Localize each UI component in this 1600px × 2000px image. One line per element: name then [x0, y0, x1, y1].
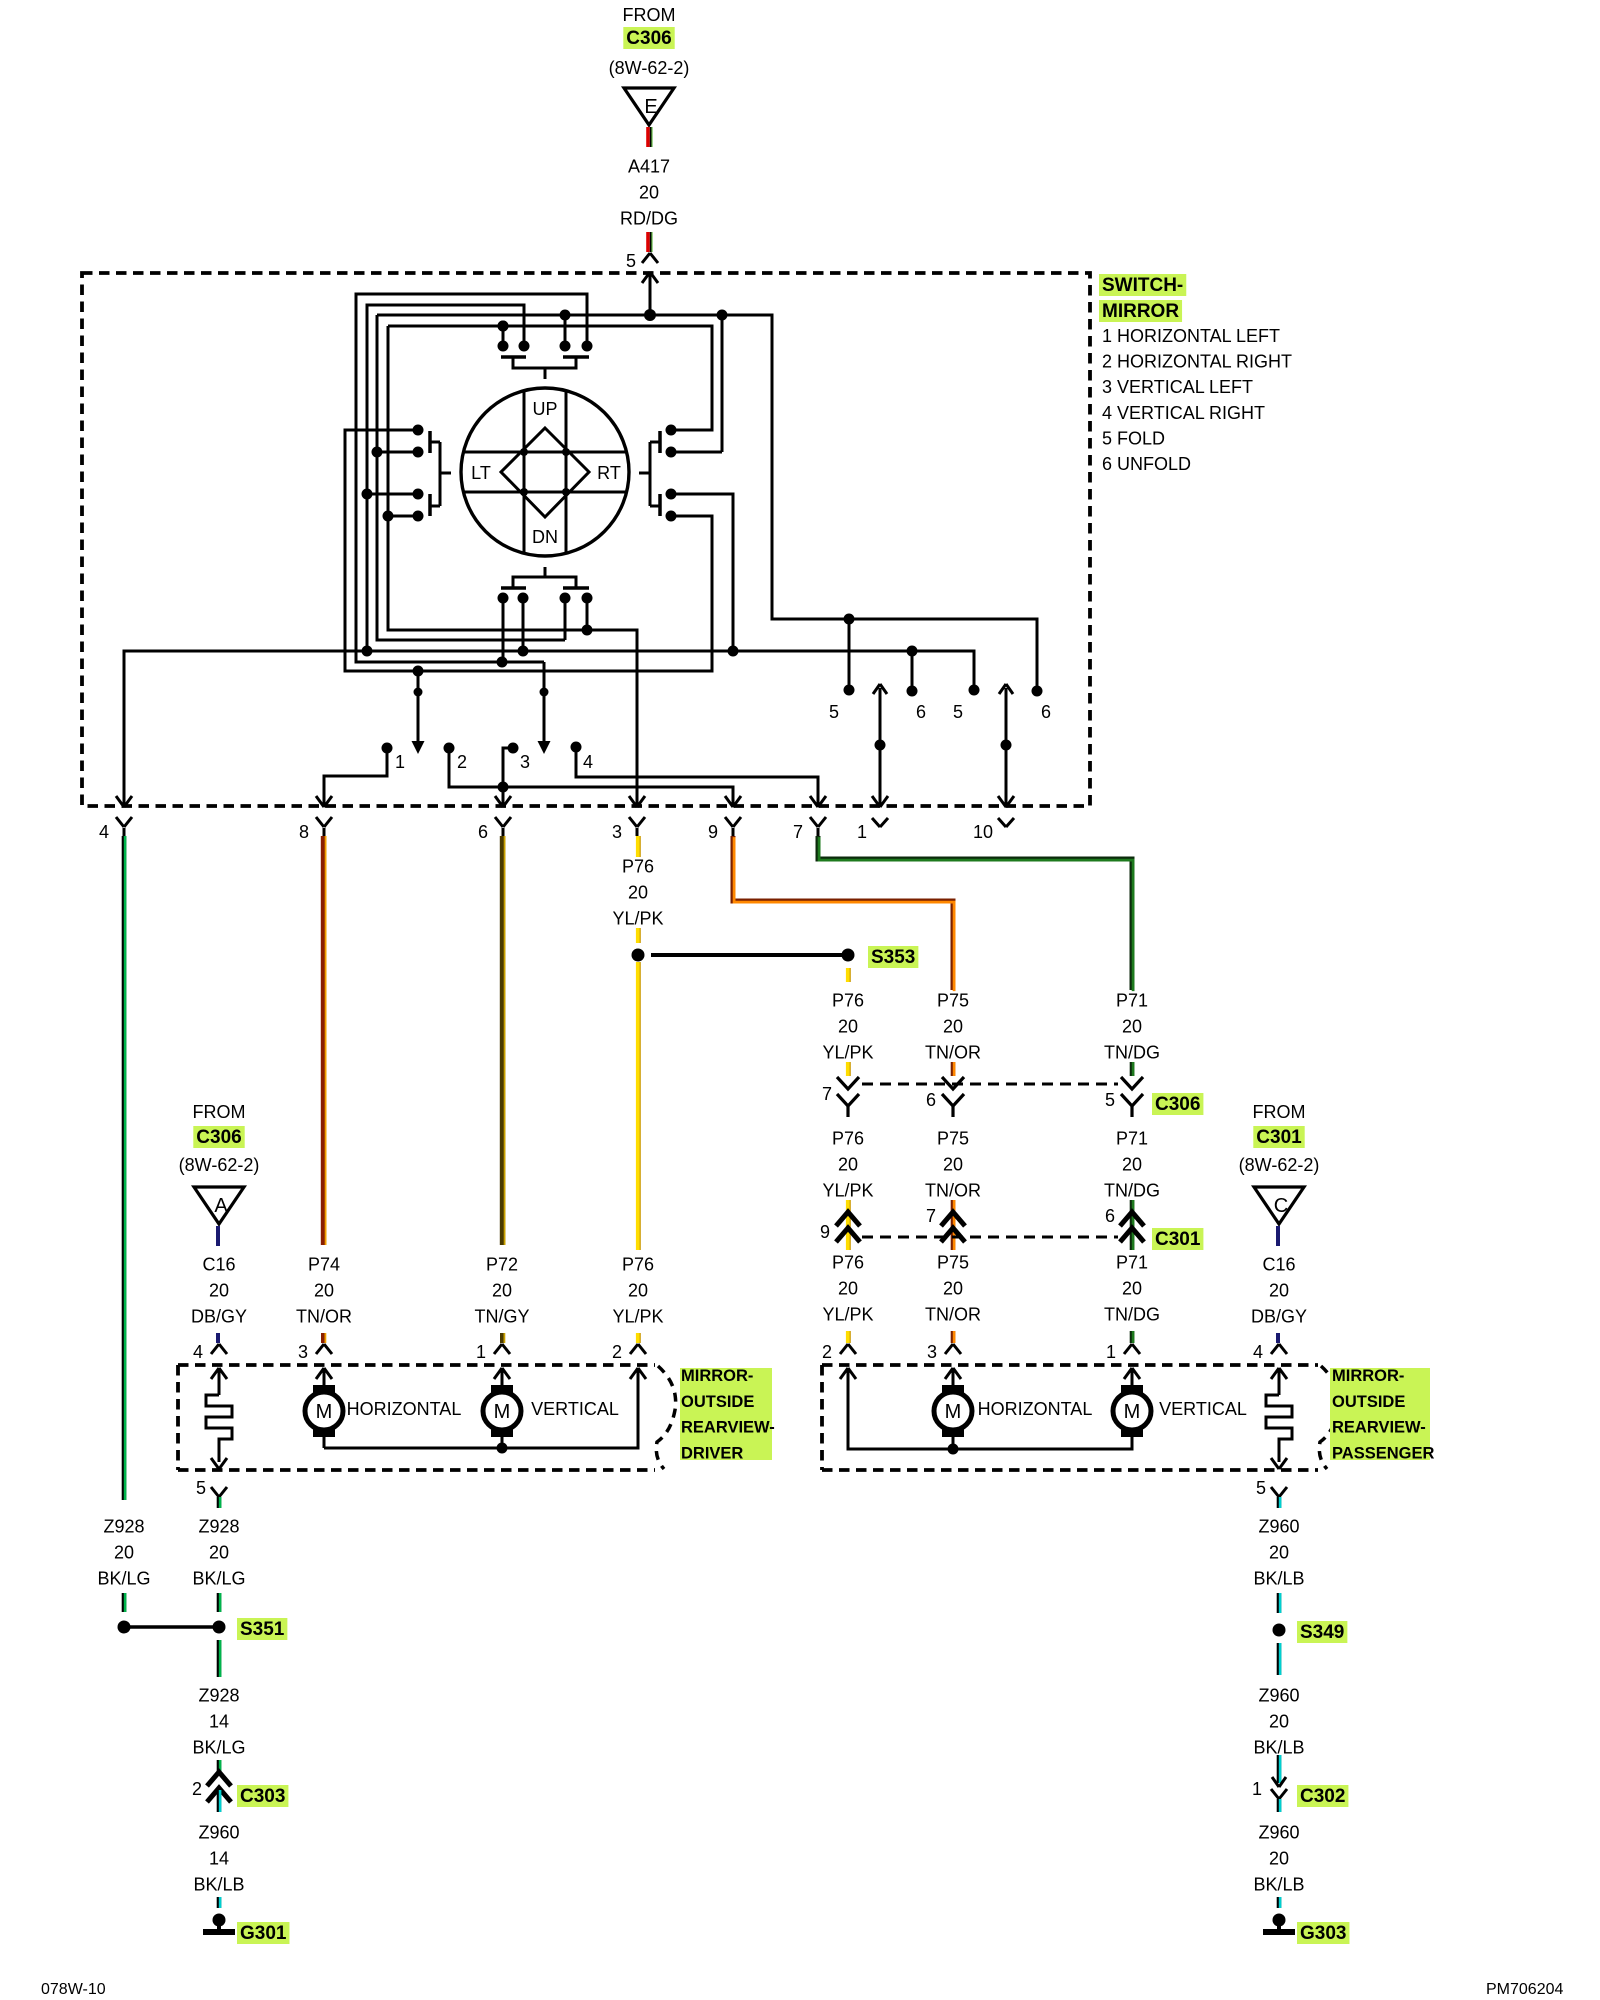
svg-text:20: 20 — [838, 1155, 858, 1175]
svg-text:YL/PK: YL/PK — [612, 909, 663, 929]
svg-text:Z960: Z960 — [1258, 1686, 1299, 1706]
svg-text:A: A — [214, 1195, 228, 1217]
svg-text:4 VERTICAL RIGHT: 4 VERTICAL RIGHT — [1102, 403, 1265, 423]
svg-text:SWITCH-: SWITCH- — [1102, 275, 1183, 296]
svg-text:LT: LT — [471, 463, 491, 483]
svg-text:5: 5 — [196, 1478, 206, 1498]
svg-text:VERTICAL: VERTICAL — [1159, 1399, 1247, 1419]
svg-text:TN/DG: TN/DG — [1104, 1181, 1160, 1201]
svg-text:9: 9 — [820, 1222, 830, 1242]
svg-text:YL/PK: YL/PK — [822, 1181, 873, 1201]
svg-text:S349: S349 — [1300, 1622, 1344, 1643]
svg-text:BK/LG: BK/LG — [192, 1738, 245, 1758]
svg-text:OUTSIDE: OUTSIDE — [1332, 1393, 1405, 1411]
svg-text:REARVIEW-: REARVIEW- — [1332, 1419, 1426, 1437]
svg-text:6: 6 — [1041, 702, 1051, 722]
svg-text:P71: P71 — [1116, 1129, 1148, 1149]
svg-text:5: 5 — [1256, 1478, 1266, 1498]
svg-text:TN/OR: TN/OR — [925, 1181, 981, 1201]
svg-text:E: E — [644, 96, 657, 118]
svg-text:5: 5 — [829, 702, 839, 722]
svg-text:Z928: Z928 — [198, 1517, 239, 1537]
svg-text:M: M — [316, 1401, 333, 1423]
svg-text:TN/DG: TN/DG — [1104, 1043, 1160, 1063]
svg-text:14: 14 — [209, 1712, 229, 1732]
svg-text:6: 6 — [916, 702, 926, 722]
svg-text:BK/LB: BK/LB — [193, 1875, 244, 1895]
svg-text:4: 4 — [99, 822, 109, 842]
svg-text:3 VERTICAL LEFT: 3 VERTICAL LEFT — [1102, 377, 1253, 397]
svg-text:4: 4 — [583, 752, 593, 772]
svg-text:P71: P71 — [1116, 1253, 1148, 1273]
svg-text:5: 5 — [953, 702, 963, 722]
svg-text:TN/GY: TN/GY — [474, 1307, 529, 1327]
svg-text:G301: G301 — [240, 1923, 287, 1944]
svg-text:FROM: FROM — [1253, 1102, 1306, 1122]
svg-text:C301: C301 — [1155, 1229, 1201, 1250]
svg-text:20: 20 — [1122, 1017, 1142, 1037]
svg-text:20: 20 — [838, 1279, 858, 1299]
svg-text:1: 1 — [857, 822, 867, 842]
svg-text:C: C — [1274, 1195, 1288, 1217]
svg-text:M: M — [1124, 1401, 1141, 1423]
svg-text:4: 4 — [1253, 1342, 1263, 1362]
svg-text:S353: S353 — [871, 947, 915, 968]
svg-text:TN/OR: TN/OR — [925, 1043, 981, 1063]
svg-text:(8W-62-2): (8W-62-2) — [179, 1155, 260, 1175]
svg-text:20: 20 — [1122, 1279, 1142, 1299]
svg-text:P75: P75 — [937, 1129, 969, 1149]
svg-text:HORIZONTAL: HORIZONTAL — [347, 1399, 462, 1419]
svg-text:C303: C303 — [240, 1786, 285, 1807]
svg-text:2: 2 — [192, 1779, 202, 1799]
svg-text:M: M — [945, 1401, 962, 1423]
svg-text:10: 10 — [973, 822, 993, 842]
svg-text:BK/LB: BK/LB — [1253, 1875, 1304, 1895]
svg-text:078W-10: 078W-10 — [41, 1981, 106, 1998]
svg-text:20: 20 — [1269, 1849, 1289, 1869]
svg-text:1: 1 — [1252, 1779, 1262, 1799]
svg-text:VERTICAL: VERTICAL — [531, 1399, 619, 1419]
svg-text:Z960: Z960 — [1258, 1823, 1299, 1843]
svg-text:5: 5 — [626, 251, 636, 271]
svg-text:DN: DN — [532, 527, 558, 547]
svg-text:C302: C302 — [1300, 1786, 1345, 1807]
svg-text:UP: UP — [532, 399, 557, 419]
svg-text:P76: P76 — [622, 857, 654, 877]
svg-text:1: 1 — [395, 752, 405, 772]
svg-text:1 HORIZONTAL LEFT: 1 HORIZONTAL LEFT — [1102, 326, 1280, 346]
svg-text:BK/LB: BK/LB — [1253, 1738, 1304, 1758]
svg-text:C306: C306 — [1155, 1094, 1200, 1115]
svg-text:7: 7 — [822, 1084, 832, 1104]
svg-text:20: 20 — [314, 1281, 334, 1301]
svg-text:20: 20 — [943, 1155, 963, 1175]
svg-text:P75: P75 — [937, 1253, 969, 1273]
svg-text:20: 20 — [1269, 1712, 1289, 1732]
svg-text:DRIVER: DRIVER — [681, 1444, 743, 1462]
svg-text:20: 20 — [628, 883, 648, 903]
svg-text:P74: P74 — [308, 1255, 340, 1275]
svg-text:7: 7 — [926, 1206, 936, 1226]
svg-text:A417: A417 — [628, 157, 670, 177]
svg-text:20: 20 — [639, 183, 659, 203]
svg-text:7: 7 — [793, 822, 803, 842]
svg-text:20: 20 — [209, 1281, 229, 1301]
svg-text:PASSENGER: PASSENGER — [1332, 1444, 1434, 1462]
svg-text:C301: C301 — [1256, 1127, 1302, 1148]
svg-text:P76: P76 — [832, 1253, 864, 1273]
svg-text:20: 20 — [943, 1279, 963, 1299]
svg-text:1: 1 — [476, 1342, 486, 1362]
svg-text:DB/GY: DB/GY — [191, 1307, 247, 1327]
svg-text:RT: RT — [597, 463, 621, 483]
svg-text:9: 9 — [708, 822, 718, 842]
svg-text:BK/LG: BK/LG — [97, 1569, 150, 1589]
svg-text:Z928: Z928 — [103, 1517, 144, 1537]
svg-text:M: M — [494, 1401, 511, 1423]
svg-text:20: 20 — [492, 1281, 512, 1301]
svg-text:C16: C16 — [1262, 1255, 1295, 1275]
svg-text:FROM: FROM — [193, 1102, 246, 1122]
svg-text:3: 3 — [927, 1342, 937, 1362]
svg-text:C306: C306 — [196, 1127, 241, 1148]
svg-text:HORIZONTAL: HORIZONTAL — [978, 1399, 1093, 1419]
svg-text:6: 6 — [926, 1090, 936, 1110]
svg-text:20: 20 — [209, 1543, 229, 1563]
svg-text:2: 2 — [612, 1342, 622, 1362]
svg-text:PM706204: PM706204 — [1486, 1981, 1563, 1998]
svg-text:MIRROR: MIRROR — [1102, 301, 1179, 322]
svg-text:20: 20 — [838, 1017, 858, 1037]
svg-text:6: 6 — [478, 822, 488, 842]
svg-text:20: 20 — [1122, 1155, 1142, 1175]
svg-text:5: 5 — [1105, 1090, 1115, 1110]
svg-text:14: 14 — [209, 1849, 229, 1869]
svg-text:P75: P75 — [937, 991, 969, 1011]
svg-text:20: 20 — [114, 1543, 134, 1563]
svg-text:3: 3 — [298, 1342, 308, 1362]
svg-text:3: 3 — [612, 822, 622, 842]
svg-text:6: 6 — [1105, 1206, 1115, 1226]
svg-text:20: 20 — [943, 1017, 963, 1037]
svg-text:Z960: Z960 — [1258, 1517, 1299, 1537]
svg-text:1: 1 — [1106, 1342, 1116, 1362]
svg-text:P76: P76 — [622, 1255, 654, 1275]
svg-text:REARVIEW-: REARVIEW- — [681, 1419, 775, 1437]
svg-text:S351: S351 — [240, 1619, 285, 1640]
svg-text:8: 8 — [299, 822, 309, 842]
svg-text:Z928: Z928 — [198, 1686, 239, 1706]
svg-text:2: 2 — [822, 1342, 832, 1362]
svg-text:MIRROR-: MIRROR- — [1332, 1367, 1404, 1385]
svg-text:20: 20 — [628, 1281, 648, 1301]
svg-text:20: 20 — [1269, 1543, 1289, 1563]
svg-text:TN/OR: TN/OR — [925, 1305, 981, 1325]
svg-text:TN/DG: TN/DG — [1104, 1305, 1160, 1325]
svg-text:DB/GY: DB/GY — [1251, 1307, 1307, 1327]
svg-text:YL/PK: YL/PK — [822, 1043, 873, 1063]
svg-text:C306: C306 — [626, 28, 671, 49]
svg-text:5 FOLD: 5 FOLD — [1102, 428, 1165, 448]
svg-text:YL/PK: YL/PK — [612, 1307, 663, 1327]
svg-text:FROM: FROM — [623, 5, 676, 25]
svg-text:RD/DG: RD/DG — [620, 209, 678, 229]
svg-text:2 HORIZONTAL RIGHT: 2 HORIZONTAL RIGHT — [1102, 352, 1292, 372]
svg-text:MIRROR-: MIRROR- — [681, 1367, 753, 1385]
svg-text:(8W-62-2): (8W-62-2) — [609, 58, 690, 78]
svg-text:6 UNFOLD: 6 UNFOLD — [1102, 454, 1191, 474]
svg-text:TN/OR: TN/OR — [296, 1307, 352, 1327]
svg-text:G303: G303 — [1300, 1923, 1346, 1944]
svg-text:Z960: Z960 — [198, 1823, 239, 1843]
svg-text:BK/LG: BK/LG — [192, 1569, 245, 1589]
svg-text:OUTSIDE: OUTSIDE — [681, 1393, 754, 1411]
svg-text:2: 2 — [457, 752, 467, 772]
svg-text:20: 20 — [1269, 1281, 1289, 1301]
svg-text:P76: P76 — [832, 1129, 864, 1149]
svg-text:(8W-62-2): (8W-62-2) — [1239, 1155, 1320, 1175]
svg-text:3: 3 — [520, 752, 530, 772]
svg-text:C16: C16 — [202, 1255, 235, 1275]
svg-text:4: 4 — [193, 1342, 203, 1362]
svg-text:P71: P71 — [1116, 991, 1148, 1011]
svg-text:BK/LB: BK/LB — [1253, 1569, 1304, 1589]
svg-text:YL/PK: YL/PK — [822, 1305, 873, 1325]
svg-text:P76: P76 — [832, 991, 864, 1011]
svg-text:P72: P72 — [486, 1255, 518, 1275]
